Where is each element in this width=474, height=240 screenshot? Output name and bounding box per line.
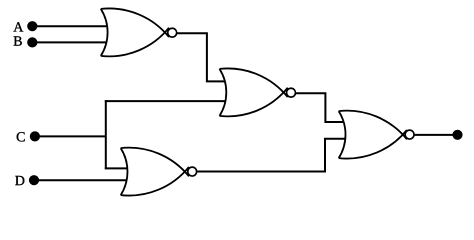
wire U2 output to U4 upper input [291, 93, 351, 122]
wire input D to U3 lower input [32, 179, 134, 181]
label B [14, 36, 22, 45]
wire input A to gate U1 [30, 25, 112, 27]
wire U4 output to terminal [410, 134, 455, 136]
input terminal dot D [29, 175, 39, 185]
label A [13, 22, 23, 31]
NOR gate U3 inversion bubble [188, 167, 197, 176]
NOR gate U3 body [121, 148, 189, 196]
input terminal dot A [27, 21, 37, 31]
wire node N1 to U2 lower input [105, 100, 230, 102]
wire U3 output to U4 lower input [192, 139, 350, 172]
wire input B to gate U1 [30, 41, 112, 43]
wire input C to node N1 [32, 135, 106, 137]
wire node N1 to U3 upper input [105, 167, 132, 169]
NOR gate U2 inversion bubble [287, 88, 296, 97]
label C [17, 132, 25, 141]
NOR gate U1 inversion bubble [168, 28, 177, 37]
NOR gate U1 body [101, 8, 169, 56]
NOR gate U2 body [220, 68, 288, 116]
NOR gate U4 body [339, 111, 407, 159]
input terminal dot C [30, 131, 40, 141]
NOR gate U4 inversion bubble [405, 130, 414, 139]
label D [15, 176, 24, 185]
wire U1 output to U2 upper input [172, 33, 230, 81]
output terminal dot [452, 130, 462, 140]
wire vertical node N1 branch [105, 100, 107, 169]
input terminal dot B [27, 37, 37, 47]
